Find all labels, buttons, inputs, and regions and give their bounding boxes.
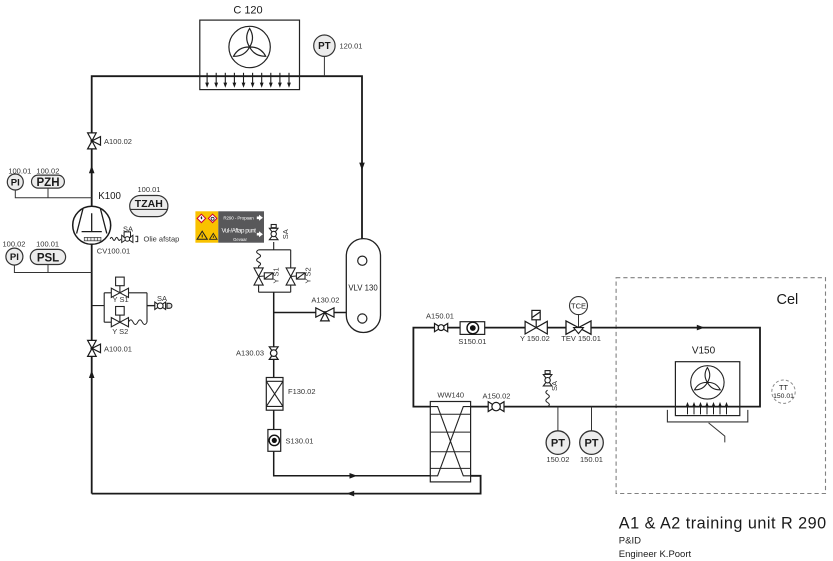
instrument PI 100.01 (7, 174, 23, 190)
solenoid valve Y S2 bypass (111, 307, 128, 327)
svg-text:Y S2: Y S2 (304, 267, 313, 283)
svg-text:A150.01: A150.01 (426, 311, 454, 320)
svg-text:PSL: PSL (37, 252, 59, 264)
svg-text:Gevaar: Gevaar (233, 237, 247, 242)
heat exchanger WW140 (430, 402, 470, 482)
condenser C120 box (200, 20, 300, 90)
valve A100.02 (88, 133, 101, 149)
svg-text:SA: SA (157, 294, 167, 303)
solenoid valve Y S1 bypass (111, 277, 128, 297)
wire: PT 120.01 stem (323, 56, 325, 76)
instrument PT 150.02 (546, 431, 570, 455)
svg-text:VLV 130: VLV 130 (348, 283, 378, 292)
svg-text:SA: SA (550, 381, 559, 391)
svg-text:PT: PT (318, 41, 331, 52)
wire: bypass loop around compressor (92, 293, 157, 322)
instrument TCE (570, 297, 588, 315)
instrument PZH 100.02 (32, 175, 65, 189)
svg-text:Cel: Cel (777, 292, 799, 308)
expansion valve TEV 150.01 (566, 321, 591, 334)
wire: PI/PSL instrument lines bottom (14, 265, 91, 273)
instrument PI 100.02 (6, 248, 23, 265)
svg-text:P&ID: P&ID (619, 536, 641, 547)
svg-text:150.01: 150.01 (773, 393, 794, 400)
valve A130.03 (269, 347, 278, 360)
arrow: flow up on suction line (89, 370, 95, 378)
condenser C120 fan (229, 26, 270, 67)
svg-text:A100.02: A100.02 (104, 137, 132, 146)
oil drain valve SA (122, 232, 138, 243)
warning placard Vul-/Aftap punt (195, 211, 264, 242)
svg-text:150.02: 150.02 (546, 455, 569, 464)
wire: SA access flexible hose on evaporator line (546, 390, 550, 406)
arrow: flow down into VLV130 (359, 163, 365, 171)
wire: discharge line compressor to condenser C120 and down to VLV130 (92, 76, 362, 493)
wire: PI/PZH instrument lines top (15, 188, 91, 198)
sight glass S130.01 (268, 430, 281, 452)
svg-text:S130.01: S130.01 (286, 437, 314, 446)
svg-text:A150.02: A150.02 (483, 392, 511, 401)
wire: TCE to TEV stem (578, 315, 580, 328)
vessel VLV 130 (346, 239, 380, 333)
svg-text:TZAH: TZAH (135, 198, 163, 210)
solenoid valve Y S2 fill point (286, 268, 305, 285)
svg-text:Y S1: Y S1 (113, 295, 129, 304)
wire: VLV130 side connection to junction (274, 312, 347, 314)
svg-text:Olie afstap: Olie afstap (144, 235, 180, 244)
wire: V150 drain (709, 423, 725, 443)
sight glass S150.01 (460, 322, 485, 335)
SA access valve of bypass loop (155, 302, 172, 309)
svg-text:TCE: TCE (571, 301, 586, 310)
wire: liquid line junction down through filter to WW140 (274, 292, 431, 476)
svg-text:Vul-/Aftap punt: Vul-/Aftap punt (222, 227, 257, 234)
valve A150.02 ball (488, 402, 504, 412)
wire: flexible hose fill loop left edge (257, 250, 261, 266)
evaporator V150 box (675, 362, 739, 416)
fill-drain SA access valve (269, 225, 278, 240)
svg-text:100.01: 100.01 (36, 239, 59, 248)
valve A100.01 (88, 340, 101, 356)
svg-text:SA: SA (281, 229, 290, 239)
svg-text:C 120: C 120 (233, 5, 262, 17)
instrument PSL 100.01 (30, 249, 65, 264)
condenser C120 air flow arrows (205, 73, 291, 88)
wire: SA access branch of bypass loop (147, 305, 156, 307)
svg-text:Engineer K.Poort: Engineer K.Poort (619, 549, 692, 560)
wire: oil drain flexible hose (110, 237, 120, 240)
svg-text:A130.02: A130.02 (311, 295, 339, 304)
svg-text:WW140: WW140 (437, 390, 464, 399)
wire: WW140 to evaporator circuit (413, 328, 760, 407)
svg-text:V150: V150 (692, 346, 716, 357)
wire: PT 150.01 stem (591, 407, 593, 431)
svg-text:100.02: 100.02 (36, 166, 59, 175)
svg-text:R290 - Propaan: R290 - Propaan (223, 215, 254, 220)
valve A150.01 ball (435, 324, 448, 332)
svg-text:TT: TT (779, 383, 788, 392)
svg-text:PI: PI (10, 252, 19, 263)
svg-text:F130.02: F130.02 (288, 387, 316, 396)
instrument PT 120.01 (314, 35, 335, 56)
solenoid valve Y150.02 (525, 310, 547, 334)
wire: flexible hose bypass loop bottom (129, 320, 148, 325)
instrument TT 150.01 (772, 380, 795, 403)
arrow: flow right liquid line to WW140 (350, 473, 358, 479)
svg-text:120.01: 120.01 (340, 42, 363, 51)
svg-text:Y 150.02: Y 150.02 (520, 334, 550, 343)
instrument PT 150.01 (580, 431, 604, 455)
svg-text:S150.01: S150.01 (458, 337, 486, 346)
svg-text:K100: K100 (98, 191, 121, 202)
svg-text:A130.03: A130.03 (236, 348, 264, 357)
instrument TZAH 100.01 (130, 196, 168, 217)
arrow: flow up on discharge line (89, 166, 95, 174)
svg-text:TEV 150.01: TEV 150.01 (561, 334, 601, 343)
wire: suction return line from WW140 to compressor (92, 476, 481, 494)
evaporator V150 drip tray (667, 410, 747, 422)
svg-text:100.02: 100.02 (3, 239, 26, 248)
svg-text:A1 & A2 training unit R 290: A1 & A2 training unit R 290 (619, 514, 827, 532)
svg-text:PT: PT (551, 438, 565, 450)
svg-text:100.01: 100.01 (8, 166, 31, 175)
arrow: flow right to evaporator (697, 325, 705, 331)
solenoid valve Y S1 fill point (254, 268, 273, 285)
evaporator V150 fan (691, 366, 724, 399)
evaporator V150 air arrows (686, 402, 729, 415)
valve A130.02 three-way (316, 308, 334, 321)
arrow: flow left suction return (347, 491, 355, 497)
svg-text:CV100.01: CV100.01 (97, 247, 130, 256)
svg-text:PZH: PZH (37, 177, 60, 189)
SA access valve evaporator line (543, 371, 552, 386)
Cel room dashed boundary (616, 278, 825, 494)
svg-text:SA: SA (123, 224, 133, 233)
wire: fill-drain point loop (259, 242, 291, 292)
svg-text:A100.01: A100.01 (104, 344, 132, 353)
compressor K100 (73, 206, 111, 244)
svg-text:Y S1: Y S1 (271, 267, 280, 283)
svg-text:100.01: 100.01 (138, 185, 161, 194)
svg-text:Y S2: Y S2 (112, 327, 128, 336)
svg-text:PT: PT (584, 438, 598, 450)
wire: PT 150.02 stem (557, 407, 559, 431)
svg-text:PI: PI (11, 177, 20, 188)
filter drier F130.02 (266, 378, 283, 411)
svg-text:150.01: 150.01 (580, 455, 603, 464)
